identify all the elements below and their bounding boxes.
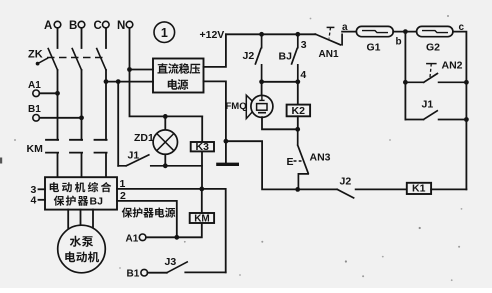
wire phase B above ZK [81, 28, 83, 48]
wire right rail to K1 [431, 188, 466, 190]
junction rail/BJ [295, 32, 300, 37]
bottom relay rail [298, 188, 338, 190]
svg-text:1: 1 [161, 26, 168, 40]
pin 4 stub [39, 199, 46, 201]
junction C-wire/ZD1 branch [116, 79, 121, 84]
buzzer FMQ [261, 82, 263, 96]
svg-text:ZK: ZK [28, 49, 43, 61]
+12V rail [226, 33, 315, 35]
pin 3 stub [39, 188, 46, 190]
junction J1/right rail [464, 117, 469, 122]
svg-text:A: A [44, 20, 52, 32]
wire K3 top [201, 116, 203, 142]
wire A1 to phase A [39, 92, 57, 94]
svg-text:K1: K1 [412, 182, 426, 194]
junction buzzer/K2/AN3 [295, 127, 300, 132]
svg-text:J1: J1 [422, 99, 434, 111]
wire pin1 rail to KM coil top [201, 189, 203, 213]
edge mark (decorative) [0, 158, 2, 164]
terminal C [103, 21, 110, 28]
svg-text:BJ: BJ [90, 196, 104, 208]
motor protector box BJ [45, 177, 117, 209]
push button AN3 [298, 129, 309, 189]
terminal B [78, 21, 85, 28]
switch J2 lower [337, 189, 407, 198]
switch J1 left [118, 155, 202, 166]
DC regulated supply box 直流稳压电源 [153, 59, 204, 93]
terminal A [54, 21, 61, 28]
wire branch down to J1 [117, 82, 119, 166]
junction K2 top [295, 79, 300, 84]
svg-text:B: B [69, 20, 77, 32]
signal lamp G2 [417, 26, 453, 36]
text 电源 [168, 79, 178, 90]
svg-text:E: E [287, 156, 294, 168]
junction AN2/right rail [464, 80, 469, 85]
svg-text:KM: KM [194, 213, 210, 224]
relay coil K1 [407, 183, 431, 194]
wire K3 bottom to pin1 rail [201, 151, 203, 189]
ZK lever pivot dot [36, 62, 40, 66]
svg-text:G2: G2 [426, 42, 440, 54]
svg-text:BJ: BJ [279, 51, 293, 63]
ZK linkage dashed line [47, 57, 103, 59]
wire supply negative output down to ground [204, 81, 226, 162]
KM main contact pole A [46, 140, 58, 177]
junction negative rail/bottom loop [224, 139, 229, 144]
dashed link E to AN3 [294, 160, 302, 162]
wire protector to motor mid [80, 210, 82, 226]
relay coil KM [190, 213, 214, 223]
svg-text:4: 4 [31, 195, 37, 207]
svg-text:A1: A1 [126, 234, 139, 245]
wire B1 to phase B [39, 117, 81, 119]
text 水泵 [70, 236, 81, 247]
indicator lamp ZD1 [164, 116, 166, 129]
wire K2 bottom [297, 116, 299, 129]
svg-text:FMQ: FMQ [226, 101, 247, 112]
svg-text:3: 3 [301, 39, 307, 51]
wire protector to motor right [92, 210, 94, 228]
wire BJ to K2 coil [297, 82, 299, 105]
wire pin1 right then down to J3 [117, 189, 226, 273]
relay coil K2 [287, 105, 311, 117]
junction pin2/A1 wire [174, 235, 179, 240]
signal lamp G1 [356, 26, 393, 36]
relay coil K3 [191, 142, 214, 151]
svg-text:AN1: AN1 [319, 49, 339, 60]
terminal B1 lower [141, 269, 148, 276]
wire phase B column [81, 70, 83, 140]
switch J2 upper [255, 34, 261, 82]
terminal A1 lower [139, 234, 146, 241]
svg-text:b: b [396, 37, 402, 48]
text 电动机 [65, 252, 75, 263]
wire J2 to BJ buzzer feed [262, 81, 298, 83]
push button AN1 [315, 34, 342, 45]
svg-text:B1: B1 [127, 269, 140, 280]
text 保护器电源 [122, 207, 133, 217]
wire N to supply upper input [130, 69, 154, 71]
wire AN1 to G1 [342, 31, 356, 33]
svg-text:J2: J2 [243, 50, 255, 62]
junction N/supply input [127, 67, 132, 72]
junction N-feed/lamp top [163, 114, 168, 119]
switch J1 right [405, 111, 466, 120]
text 电动机综合 [50, 182, 59, 192]
svg-text:J2: J2 [340, 176, 352, 188]
svg-text:G1: G1 [367, 42, 381, 54]
svg-text:ZD1: ZD1 [134, 132, 154, 144]
junction node b branch [403, 29, 408, 34]
text 直流稳压 [157, 63, 167, 73]
KM main contact pole B [70, 140, 82, 177]
wire negative tap right then down to relay loop rail [226, 141, 298, 189]
svg-text:C: C [94, 20, 102, 32]
wire A1 to KM coil bottom [146, 223, 202, 237]
wire phase A column [57, 70, 59, 140]
wire node b down [404, 32, 406, 120]
KM main contact pole C [95, 140, 107, 177]
wire phase A above ZK [57, 28, 59, 48]
wire buzzer bottom loop [262, 117, 298, 129]
switch BJ contact [292, 34, 298, 82]
svg-text:KM: KM [27, 143, 44, 155]
wire G1 to G2 [393, 31, 416, 33]
terminal B1 upper [33, 115, 40, 122]
junction buzzer top [259, 79, 264, 84]
junction A1/phase A [55, 91, 60, 96]
junction b/AN2 [403, 80, 408, 85]
svg-text:A1: A1 [28, 80, 41, 91]
wire protector to motor left [67, 210, 69, 228]
svg-text:B1: B1 [28, 104, 41, 115]
ZK blade pole B [72, 49, 81, 71]
push button AN2 [405, 74, 466, 83]
svg-text:J3: J3 [165, 256, 177, 268]
svg-text:N: N [117, 20, 125, 32]
svg-text:4: 4 [300, 69, 306, 81]
terminal A1 upper [33, 90, 40, 97]
junction AN3/bottom rail [295, 187, 300, 192]
wire B1 to J3 [148, 272, 167, 274]
wire supply +12V output up [204, 34, 226, 67]
wire phase C column [105, 70, 107, 140]
junction lamp bottom/J1 wire [163, 163, 168, 168]
terminal N [126, 21, 133, 28]
svg-text:+12V: +12V [200, 29, 225, 41]
junction B1/phase B [79, 115, 84, 120]
motor circle 水泵电动机 [58, 225, 106, 273]
svg-text:AN2: AN2 [442, 60, 463, 72]
wire J3 to riser [185, 271, 225, 273]
wire phase C to supply lower input [106, 81, 153, 83]
wire phase C above ZK [105, 28, 107, 48]
svg-text:K2: K2 [292, 105, 306, 117]
switch J3 blade [167, 262, 187, 273]
ZK blade pole C [97, 49, 106, 71]
scan specks (decorative) [261, 241, 263, 243]
wire G2 to right rail [453, 32, 467, 190]
junction rail/J2 [259, 32, 264, 37]
ZK lever [38, 58, 48, 63]
svg-text:AN3: AN3 [310, 152, 331, 164]
ground bar [218, 163, 237, 166]
junction C/supply input [104, 79, 109, 84]
ZK blade pole A [48, 49, 57, 71]
junction pin1/K3/KM [199, 187, 204, 192]
text 保护器BJ [54, 196, 65, 206]
wire N column down then right to ZD1/K3 feed [130, 28, 203, 117]
wire pin2 right then down to A1 row [117, 201, 177, 237]
figure number circle 1 [154, 22, 175, 43]
